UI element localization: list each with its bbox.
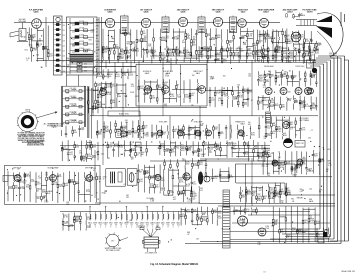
component cluster (150,124)-(252,140): [151, 124, 255, 140]
tube 5th IF: [86, 175, 93, 182]
svg-text:470K: 470K: [97, 85, 102, 87]
svg-text:.02: .02: [103, 90, 106, 92]
svg-text:2.2M: 2.2M: [87, 219, 92, 221]
component cluster (258,116)-(302,140): [258, 116, 306, 139]
svg-text:1M: 1M: [191, 95, 194, 97]
svg-text:C49: C49: [66, 100, 69, 102]
tube trap: [50, 175, 57, 182]
svg-text:SYNC DISC: SYNC DISC: [295, 66, 305, 68]
svg-text:C57: C57: [66, 116, 69, 118]
svg-text:.02: .02: [96, 38, 98, 40]
svg-text:R22: R22: [161, 180, 164, 182]
svg-text:C42: C42: [246, 211, 249, 213]
tuner main box: [67, 17, 98, 75]
svg-text:.001: .001: [308, 137, 311, 139]
svg-text:6AG5: 6AG5: [34, 11, 39, 14]
svg-text:SYNC SEP: SYNC SEP: [159, 122, 168, 124]
svg-text:L114 OSC: L114 OSC: [69, 112, 77, 114]
svg-text:R22: R22: [286, 163, 289, 165]
stepped wire vert osc: [236, 163, 296, 165]
IF strip box: [5, 165, 100, 204]
svg-text:.02: .02: [48, 193, 51, 195]
svg-text:1500: 1500: [44, 202, 48, 204]
svg-text:330: 330: [281, 232, 284, 234]
svg-text:1500: 1500: [276, 52, 280, 54]
svg-text:R22: R22: [98, 134, 101, 136]
svg-text:C42: C42: [267, 127, 270, 129]
svg-text:L16: L16: [62, 56, 65, 58]
svg-text:.001: .001: [69, 154, 73, 156]
svg-text:150: 150: [271, 225, 274, 227]
component cluster (105,140)-(152,158): [107, 140, 148, 158]
svg-text:R22: R22: [161, 54, 164, 56]
tube ratio det: [198, 86, 206, 94]
svg-text:R31: R31: [267, 74, 270, 76]
knob pointer arrow: [36, 113, 55, 119]
svg-text:C7: C7: [321, 161, 323, 163]
component cluster (61,212)-(88,231): [62, 212, 92, 231]
band C top bus: [60, 144, 270, 146]
svg-text:R8: R8: [326, 171, 328, 173]
svg-text:R22: R22: [251, 134, 254, 136]
svg-text:C7: C7: [281, 191, 283, 193]
svg-text:R31: R31: [312, 77, 315, 79]
svg-text:R8: R8: [319, 191, 321, 193]
component cluster (134,28)-(158,58): [136, 28, 154, 58]
svg-text:150: 150: [239, 132, 242, 134]
svg-text:C7: C7: [91, 179, 93, 181]
svg-text:L122 OSC: L122 OSC: [69, 119, 77, 121]
svg-text:R31: R31: [284, 135, 287, 137]
svg-text:.047: .047: [81, 129, 85, 131]
svg-text:L17: L17: [62, 61, 65, 63]
svg-text:1M: 1M: [274, 224, 277, 226]
twin lead wires: [10, 31, 19, 33]
svg-text:150: 150: [216, 146, 219, 148]
component cluster (27,27)-(35,48): [28, 27, 33, 46]
svg-text:R22: R22: [197, 155, 200, 157]
component cluster (247,140)-(270,163): [247, 140, 270, 162]
svg-text:.02: .02: [177, 148, 180, 150]
svg-text:.02: .02: [96, 53, 98, 55]
component cluster (6,171)-(98,203): [8, 171, 102, 203]
svg-text:1500: 1500: [234, 98, 238, 100]
svg-text:100: 100: [239, 97, 242, 99]
svg-text:.05: .05: [59, 176, 62, 178]
svg-text:R22: R22: [247, 194, 250, 196]
svg-text:V3: V3: [162, 225, 164, 227]
svg-text:2.2M: 2.2M: [48, 179, 53, 181]
svg-text:C12: C12: [72, 32, 75, 34]
svg-text:.02: .02: [146, 173, 149, 175]
tube V5 3rd video IF: [213, 17, 222, 26]
tube V4 2nd video IF: [178, 17, 187, 26]
svg-text:100: 100: [109, 74, 112, 76]
svg-text:6AL5: 6AL5: [196, 72, 200, 75]
svg-text:100: 100: [74, 132, 77, 134]
svg-text:.047: .047: [240, 50, 244, 52]
svg-text:C7: C7: [295, 134, 297, 136]
svg-text:R22: R22: [166, 38, 169, 40]
svg-text:C42: C42: [316, 52, 319, 54]
svg-text:C14: C14: [300, 191, 303, 193]
svg-text:.001: .001: [116, 76, 120, 78]
svg-text:R22: R22: [102, 193, 105, 195]
component cluster (87,86)-(102,114): [87, 87, 104, 114]
svg-text:6AL5: 6AL5: [241, 11, 246, 14]
svg-text:R22: R22: [136, 50, 139, 52]
svg-text:C7: C7: [290, 129, 292, 131]
svg-text:.05: .05: [200, 190, 203, 192]
svg-text:47: 47: [266, 166, 268, 168]
svg-text:CH 13: CH 13: [52, 127, 57, 129]
focus coil dark: [312, 68, 317, 73]
svg-text:V17: V17: [111, 241, 114, 243]
svg-text:330: 330: [45, 174, 48, 176]
svg-text:1M: 1M: [255, 148, 258, 150]
svg-text:100: 100: [283, 53, 286, 55]
svg-text:560: 560: [118, 96, 121, 98]
component cluster (316,226)-(334,244): [316, 228, 330, 243]
svg-text:R31: R31: [182, 42, 185, 44]
tube vert osc: [283, 122, 290, 129]
svg-text:150: 150: [177, 37, 180, 39]
svg-text:330: 330: [199, 90, 202, 92]
wire top signal path: [14, 22, 32, 24]
svg-text:2.2M: 2.2M: [20, 188, 25, 190]
svg-text:.001: .001: [98, 178, 102, 180]
svg-text:2.2M: 2.2M: [110, 142, 114, 144]
svg-text:R31: R31: [148, 46, 151, 48]
svg-text:1500: 1500: [182, 216, 186, 218]
svg-text:2.2M: 2.2M: [170, 192, 175, 194]
svg-text:100: 100: [212, 39, 215, 41]
CRT picture tube: [286, 13, 343, 57]
svg-text:100: 100: [192, 75, 195, 77]
svg-text:.05: .05: [96, 32, 98, 34]
component cluster (100,46)-(316,64): [103, 46, 312, 64]
svg-text:100: 100: [161, 59, 164, 61]
svg-text:L19: L19: [62, 71, 65, 73]
svg-text:L9: L9: [69, 27, 71, 29]
svg-text:C7: C7: [271, 76, 273, 78]
svg-text:.001: .001: [96, 59, 99, 61]
svg-text:.047: .047: [49, 55, 53, 57]
svg-text:6AU6: 6AU6: [216, 11, 221, 14]
svg-text:6SN7: 6SN7: [114, 222, 118, 224]
IF transformer T3: [162, 16, 169, 33]
svg-text:+265V: +265V: [292, 175, 298, 177]
svg-text:C14: C14: [309, 188, 312, 190]
svg-text:C42: C42: [306, 41, 309, 43]
svg-text:47: 47: [137, 154, 139, 156]
svg-text:6AU6: 6AU6: [144, 11, 149, 14]
component cluster (158,28)-(194,58): [160, 28, 197, 57]
svg-text:V12: V12: [167, 225, 170, 227]
svg-text:C42: C42: [70, 226, 73, 228]
svg-text:6SN7: 6SN7: [166, 222, 170, 224]
tube sync row tube: [177, 130, 183, 136]
tube V8 video out: [291, 32, 301, 42]
svg-text:1500: 1500: [129, 75, 133, 77]
svg-text:R8: R8: [203, 214, 205, 216]
svg-text:.047: .047: [288, 43, 292, 45]
tuner to bank verticals: [66, 75, 68, 86]
svg-text:6AU6: 6AU6: [26, 175, 31, 178]
svg-text:V9: V9: [115, 225, 117, 227]
component cluster (162,168)-(198,197): [164, 168, 196, 196]
svg-text:C14: C14: [91, 32, 94, 34]
svg-text:560: 560: [229, 42, 232, 44]
svg-text:150: 150: [186, 54, 189, 56]
svg-text:MAGNET: MAGNET: [329, 54, 336, 57]
tube agc row tube: [305, 88, 312, 95]
svg-text:C7: C7: [96, 65, 98, 67]
svg-text:560: 560: [112, 102, 115, 104]
svg-text:L3 10K: L3 10K: [79, 21, 85, 23]
svg-text:300 OHM: 300 OHM: [19, 19, 26, 21]
svg-text:R22: R22: [25, 50, 28, 52]
svg-text:.001: .001: [264, 100, 268, 102]
heater bus: [60, 211, 310, 213]
component cluster (47,24)-(54,60): [47, 26, 52, 61]
svg-text:VERT OUT: VERT OUT: [296, 143, 304, 145]
svg-text:R8: R8: [290, 124, 292, 126]
svg-text:L7 10K: L7 10K: [79, 48, 85, 50]
svg-text:FINE TUNING CONTROL FOR BEST: FINE TUNING CONTROL FOR BEST: [18, 136, 44, 138]
svg-text:C7: C7: [165, 84, 167, 86]
svg-text:L91 OSC: L91 OSC: [70, 88, 77, 90]
svg-text:2.2M: 2.2M: [306, 106, 311, 108]
right bus bends bottom: [280, 228, 320, 230]
component cluster (114,82)-(133,108): [117, 83, 127, 107]
svg-text:.05: .05: [200, 151, 203, 153]
svg-text:C7: C7: [26, 60, 28, 62]
svg-text:C7: C7: [311, 130, 313, 132]
svg-text:BLUE: BLUE: [141, 226, 145, 228]
svg-text:47: 47: [177, 55, 179, 57]
svg-text:330: 330: [294, 37, 297, 39]
svg-text:.047: .047: [169, 55, 173, 57]
svg-text:150: 150: [120, 147, 123, 149]
svg-text:C7: C7: [248, 50, 250, 52]
svg-text:6SN7: 6SN7: [171, 222, 175, 224]
svg-text:47: 47: [266, 76, 268, 78]
pix tube socket view: [107, 234, 120, 247]
wire sound IF signal: [152, 89, 165, 91]
svg-text:R8: R8: [264, 198, 266, 200]
svg-text:V7: V7: [125, 225, 127, 227]
tube audio disc: [121, 131, 127, 137]
svg-text:C42: C42: [214, 212, 217, 214]
svg-text:6AU6: 6AU6: [309, 170, 313, 173]
component cluster (136,164)-(162,194): [137, 164, 165, 193]
svg-text:470K: 470K: [280, 167, 285, 169]
volume network: [205, 90, 252, 92]
tube sync row tube: [195, 130, 201, 136]
svg-text:560: 560: [88, 147, 91, 149]
svg-text:14CP4: 14CP4: [307, 11, 314, 14]
svg-text:.001: .001: [101, 154, 104, 156]
svg-text:330: 330: [156, 187, 159, 189]
svg-text:L9: L9: [258, 43, 260, 45]
svg-text:.001: .001: [223, 61, 227, 63]
svg-text:.047: .047: [96, 47, 99, 49]
svg-text:.05: .05: [311, 155, 313, 157]
svg-text:100: 100: [279, 163, 282, 165]
svg-text:PIX TUBE SOCKET: PIX TUBE SOCKET: [106, 250, 120, 252]
svg-text:R8: R8: [236, 50, 238, 52]
svg-text:C14: C14: [193, 183, 196, 185]
svg-text:.047: .047: [37, 184, 41, 186]
svg-text:.047: .047: [242, 197, 246, 199]
svg-text:L9: L9: [96, 23, 98, 25]
svg-text:C22: C22: [84, 70, 87, 72]
svg-text:330: 330: [96, 50, 99, 52]
svg-text:L18: L18: [62, 66, 65, 68]
component cluster (95,120)-(148,139): [96, 120, 149, 138]
bus lines band B: [95, 107, 207, 109]
svg-text:47: 47: [38, 46, 40, 48]
svg-text:L9: L9: [144, 127, 146, 129]
svg-text:1500: 1500: [193, 165, 197, 167]
svg-text:V9: V9: [151, 225, 153, 227]
component cluster (266,182)-(290,198): [269, 183, 291, 198]
svg-text:100: 100: [88, 49, 91, 51]
IF transformer T5: [230, 16, 237, 33]
svg-text:.05: .05: [161, 190, 164, 192]
svg-text:Fig. 13. Schematic Diagram,: Fig. 13. Schematic Diagram, Model VM2131: [151, 263, 199, 266]
tube V7 video amp: [259, 18, 268, 27]
svg-text:R22: R22: [302, 107, 305, 109]
tube 1st audio: [155, 175, 161, 181]
svg-text:1500: 1500: [83, 159, 87, 161]
component cluster (158,140)-(206,157): [159, 140, 208, 157]
svg-text:.047: .047: [204, 144, 208, 146]
fine tuning knob: [18, 112, 38, 132]
svg-text:C42: C42: [258, 244, 261, 246]
svg-text:.047: .047: [266, 35, 269, 37]
svg-text:L15: L15: [62, 51, 65, 53]
svg-text:V3: V3: [99, 225, 101, 227]
tube rect 5U4: [238, 216, 248, 226]
svg-text:6SN7: 6SN7: [93, 222, 97, 224]
svg-text:R8: R8: [242, 211, 244, 213]
svg-text:R22: R22: [220, 133, 223, 135]
component cluster (30,27)-(46,62): [30, 28, 48, 62]
svg-text:.05: .05: [122, 129, 125, 131]
component cluster (60,140)-(105,162): [61, 140, 99, 162]
svg-text:.047: .047: [177, 96, 181, 98]
svg-text:R8: R8: [127, 43, 129, 45]
svg-text:L106 OSC: L106 OSC: [69, 104, 77, 106]
component cluster (100,28)-(134,60): [102, 29, 136, 60]
svg-text:C14: C14: [117, 56, 120, 58]
svg-text:2.2M: 2.2M: [237, 93, 241, 95]
svg-text:.05: .05: [86, 180, 89, 182]
svg-text:C42: C42: [79, 153, 82, 155]
svg-text:100: 100: [267, 175, 270, 177]
svg-text:330: 330: [37, 198, 40, 200]
tube small2: [297, 159, 303, 165]
svg-text:R8: R8: [139, 172, 141, 174]
svg-text:2.2M: 2.2M: [119, 58, 124, 60]
svg-text:.05: .05: [244, 104, 247, 106]
tube agc row tube: [295, 88, 302, 95]
svg-text:.047: .047: [31, 181, 35, 183]
svg-text:L9: L9: [98, 75, 100, 77]
svg-text:47: 47: [152, 136, 154, 138]
svg-text:100: 100: [76, 146, 79, 148]
component cluster (238,185)-(292,204): [239, 186, 292, 204]
svg-text:L6 10K: L6 10K: [79, 41, 85, 43]
svg-text:R8: R8: [137, 137, 139, 139]
tuner oscillator coil box: [54, 16, 63, 75]
svg-text:L13: L13: [62, 40, 65, 42]
svg-text:UNLESS NOTED OTW: UNLESS NOTED OTW: [27, 145, 45, 147]
svg-text:100: 100: [201, 156, 204, 158]
svg-text:R8: R8: [39, 41, 41, 43]
tube 4th IF: [14, 175, 21, 182]
tube sound IF3: [162, 86, 170, 94]
small dark box: [323, 232, 328, 237]
vertical feeders: [45, 17, 47, 67]
svg-text:DRIVE: DRIVE: [25, 110, 30, 112]
tube V2 converter: [105, 18, 114, 27]
svg-text:L9: L9: [287, 237, 289, 239]
svg-text:C42: C42: [211, 100, 214, 102]
vert integrator block: [266, 112, 271, 123]
svg-text:.001: .001: [203, 220, 207, 222]
component cluster (208,86)-(254,108): [209, 86, 253, 108]
svg-text:.001: .001: [125, 52, 128, 54]
svg-text:6AU6: 6AU6: [145, 72, 150, 75]
IF transformer T4: [198, 16, 205, 33]
svg-text:C61: C61: [66, 124, 69, 126]
tube V6 video det: [238, 19, 247, 28]
svg-text:C42: C42: [209, 152, 212, 154]
svg-text:2.2M: 2.2M: [32, 50, 37, 52]
svg-text:HEIGHT: HEIGHT: [297, 198, 303, 200]
svg-text:L9: L9: [190, 130, 192, 132]
svg-text:C53: C53: [66, 108, 69, 110]
svg-text:R8: R8: [67, 66, 69, 68]
svg-text:330: 330: [235, 211, 238, 213]
component cluster (258,30)-(316,44): [259, 30, 313, 44]
svg-text:150: 150: [223, 76, 226, 78]
svg-text:1500: 1500: [185, 96, 189, 98]
svg-text:.02: .02: [166, 150, 168, 152]
component cluster (256,95)-(318,111): [257, 95, 317, 111]
svg-text:V12: V12: [146, 225, 149, 227]
component cluster (272,206)-(322,244): [272, 206, 320, 243]
tube damper 6W4: [258, 228, 266, 236]
svg-text:.047: .047: [276, 105, 280, 107]
svg-text:C15: C15: [72, 52, 75, 54]
tube sync row tube: [157, 130, 163, 136]
staircase wires: [236, 182, 285, 184]
svg-text:C7: C7: [209, 58, 211, 60]
svg-text:100: 100: [290, 58, 293, 60]
component cluster (284,12)-(302,19): [286, 13, 305, 19]
tube sound take-off: [100, 89, 107, 96]
svg-text:6AG5: 6AG5: [108, 11, 113, 14]
svg-text:2.2M: 2.2M: [150, 201, 154, 203]
svg-text:.047: .047: [258, 190, 261, 192]
svg-text:150: 150: [9, 188, 12, 190]
svg-text:.02: .02: [216, 59, 218, 61]
svg-text:.001: .001: [99, 96, 103, 98]
